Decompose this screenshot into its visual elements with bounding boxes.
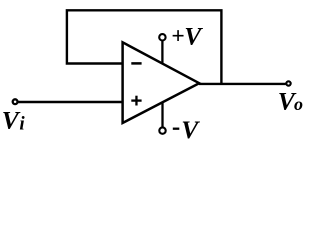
label -V xyxy=(173,115,200,144)
svg-text:o: o xyxy=(294,94,303,114)
label Vi xyxy=(2,106,26,135)
wire +V supply stem xyxy=(161,40,163,63)
wire input Vi to non-inverting input xyxy=(18,101,123,103)
op-amp U1 xyxy=(123,42,200,123)
wire output (op-amp tip to output terminal) xyxy=(199,83,286,85)
svg-text:V: V xyxy=(184,22,203,51)
svg-text:V: V xyxy=(181,115,200,144)
svg-text:+: + xyxy=(171,23,184,49)
node Vi input terminal xyxy=(13,99,18,104)
op-amp non-inverting input marker (+) xyxy=(131,96,141,106)
label Vo xyxy=(278,86,303,115)
label +V xyxy=(171,22,203,51)
wire feedback loop (output node to inverting input) xyxy=(67,10,222,84)
node +V supply terminal xyxy=(159,34,165,40)
op-amp inverting input marker (-) xyxy=(131,62,141,65)
node Vo output terminal xyxy=(286,81,290,85)
node -V supply terminal xyxy=(159,127,165,133)
svg-text:i: i xyxy=(19,114,25,135)
svg-text:V: V xyxy=(2,106,21,135)
wire -V supply stem xyxy=(161,103,163,129)
